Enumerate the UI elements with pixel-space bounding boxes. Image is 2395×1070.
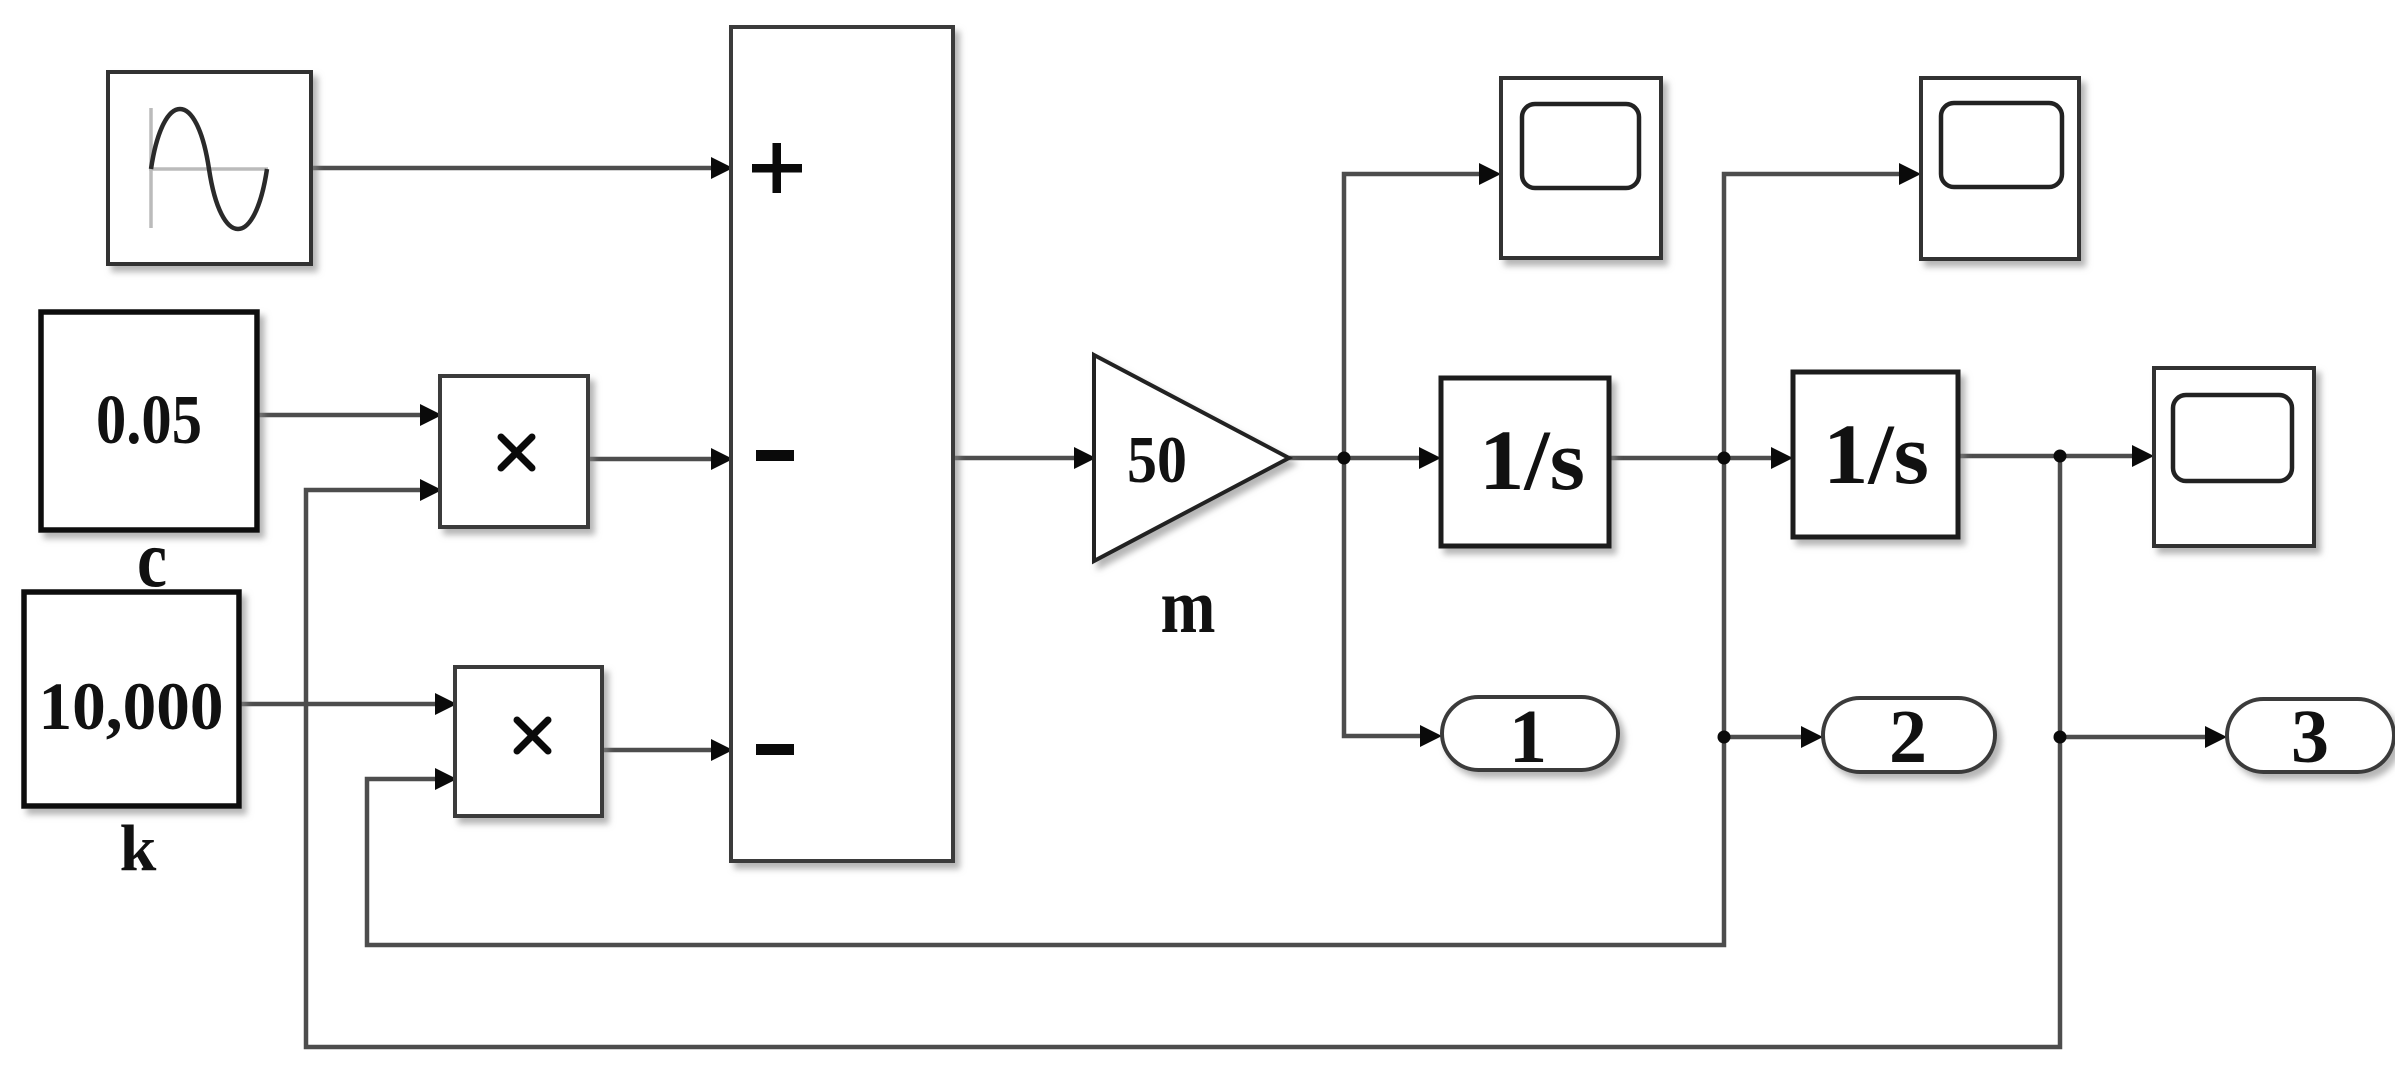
wire velocity feedback down to outport 2 and product P2 input 2 (367, 458, 1724, 945)
svg-text:3: 3 (2291, 695, 2329, 779)
outport 3 (2227, 695, 2394, 779)
wire sine to sum plus input (311, 157, 733, 179)
outport 1 (1442, 695, 1618, 779)
wire integrator I2 output to scope S3 (1958, 445, 2154, 467)
wire branch down to outport 1 (1344, 458, 1442, 747)
integrator block I2 (1793, 372, 1958, 537)
wire branch to outport 3 (2060, 726, 2227, 748)
product block P1 (440, 376, 588, 527)
wire product P1 output to sum minus input 1 (588, 448, 733, 470)
integrator block I1 (1441, 378, 1609, 546)
gain block m value 50 (1094, 355, 1289, 561)
wire position feedback down to outport 3 and product P1 input 2 (306, 456, 2060, 1047)
sine wave source block (108, 72, 311, 264)
scope S3 (2154, 368, 2314, 546)
outport 2 (1823, 695, 1995, 779)
wire branch up to scope S2 (1724, 163, 1921, 458)
svg-text:1/s: 1/s (1823, 406, 1929, 502)
node D junction after integrator I2 (2054, 450, 2067, 463)
svg-text:1: 1 (1509, 695, 1547, 779)
constant block c value 0.05 (41, 312, 257, 530)
wire product P2 output to sum minus input 2 (602, 739, 733, 761)
svg-text:0.05: 0.05 (96, 382, 202, 459)
wire sum output to gain input (953, 447, 1096, 469)
svg-text:10,000: 10,000 (39, 668, 224, 744)
node E junction at outport 3 branch (2054, 731, 2067, 744)
svg-text:m: m (1161, 563, 1216, 649)
product block P2 (455, 667, 602, 816)
node B junction after integrator I1 (1718, 452, 1731, 465)
node C junction at outport 2 branch (1718, 731, 1731, 744)
wire gain output to integrator I1 input (1289, 447, 1441, 469)
sum block (731, 27, 953, 861)
scope S2 (1921, 78, 2079, 259)
scope S1 (1501, 78, 1661, 258)
constant block k value 10,000 (24, 592, 239, 806)
node A junction after gain (1338, 452, 1351, 465)
svg-text:2: 2 (1889, 695, 1927, 779)
wire integrator I1 output to integrator I2 input (1609, 447, 1793, 469)
svg-text:1/s: 1/s (1479, 412, 1585, 508)
wire constant k to product P2 input 1 (239, 693, 457, 715)
svg-text:k: k (120, 812, 157, 885)
wire branch up to scope S1 (1344, 163, 1501, 458)
wire constant c to product P1 input 1 (257, 404, 442, 426)
svg-text:50: 50 (1127, 423, 1187, 497)
wire branch to outport 2 (1724, 726, 1823, 748)
